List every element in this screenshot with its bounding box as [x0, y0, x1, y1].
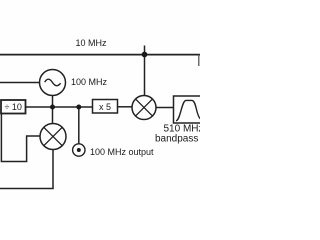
svg-text:10 MHz: 10 MHz — [76, 38, 108, 48]
output terminal J1 — [73, 144, 85, 156]
node junction at output tap — [76, 105, 81, 110]
wire stub above junction — [144, 46, 146, 55]
svg-text:bandpass: bandpass — [155, 134, 198, 145]
multiplier box x5 — [93, 100, 118, 114]
bandpass filter FL1 — [174, 96, 206, 123]
divider box ÷10 — [1, 100, 26, 114]
svg-text:100 MHz output: 100 MHz output — [90, 147, 154, 157]
wire mixer U2 to bandpass filter — [156, 107, 174, 109]
node junction below oscillator — [50, 105, 55, 110]
mixer U1 — [40, 124, 66, 150]
svg-text:x 5: x 5 — [99, 102, 111, 112]
wire input to oscillator — [0, 82, 40, 84]
wire 10 MHz bus (top horizontal) — [0, 54, 200, 56]
wire stub down at right edge — [198, 55, 200, 67]
svg-text:÷ 10: ÷ 10 — [4, 102, 21, 112]
svg-text:100 MHz: 100 MHz — [71, 77, 108, 87]
node junction on 10 MHz bus — [142, 52, 148, 58]
wire junction to output terminal — [78, 107, 80, 144]
wire x5 box to mixer U2 — [118, 106, 133, 108]
mixer U2 — [132, 96, 156, 120]
wire junction to mixer U2 top — [144, 55, 146, 97]
wire mixer U1 bottom to lower-left (elbow path) — [0, 150, 53, 189]
oscillator G1 100 MHz — [40, 70, 66, 96]
wire mixer U1 left input (elbow path) — [1, 113, 40, 162]
wire oscillator to mixer U1 (vertical) — [52, 96, 54, 125]
wire divider output bus — [25, 106, 93, 108]
